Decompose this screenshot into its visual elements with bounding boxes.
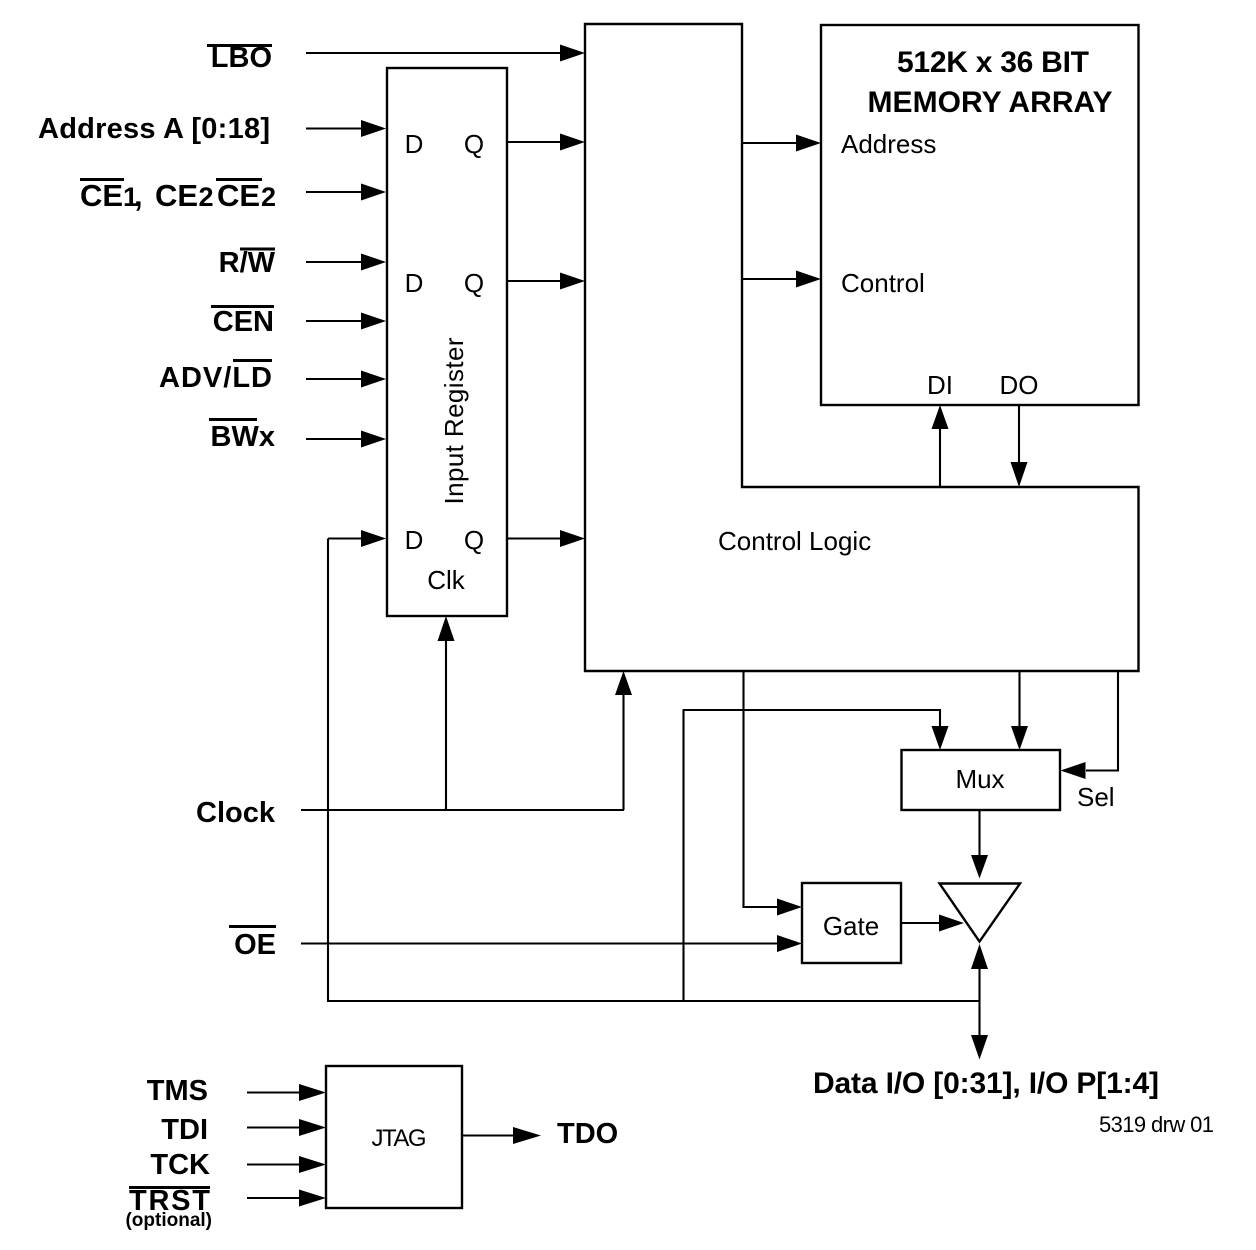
arrowhead TRST [299, 1190, 326, 1207]
wire mux left input [684, 710, 941, 1001]
memory array box [821, 25, 1139, 405]
wire D3 input [328, 537, 363, 539]
arrowhead OE to gate [777, 935, 802, 952]
svg-text:Input Register: Input Register [439, 337, 469, 504]
svg-text:D: D [405, 129, 424, 159]
svg-text:TDI: TDI [161, 1114, 208, 1146]
svg-text:(optional): (optional) [125, 1210, 212, 1231]
svg-text:Sel: Sel [1077, 782, 1115, 812]
svg-text:2: 2 [199, 182, 214, 212]
arrowhead control to gate [777, 899, 802, 916]
arrowhead into buffer bottom [971, 944, 988, 969]
arrowhead mux out [971, 855, 988, 879]
svg-text:Q: Q [464, 525, 484, 555]
svg-text:CEN: CEN [213, 306, 274, 338]
arrowhead Address A [361, 120, 386, 137]
arrowhead pad down [971, 1035, 988, 1060]
arrowhead memory Control [796, 271, 821, 288]
arrowhead D3 [361, 530, 386, 547]
svg-text:CE: CE [155, 178, 198, 213]
arrowhead mux right [1011, 726, 1028, 750]
wire Sel [1086, 671, 1118, 771]
wire Clock to control logic [622, 694, 624, 810]
wire data feedback pad to D3 [328, 539, 980, 1002]
tri-state output buffer [940, 884, 1021, 942]
wire Q2 to control logic [507, 280, 562, 282]
svg-text:Clock: Clock [196, 797, 276, 829]
svg-text:512K x 36 BIT: 512K x 36 BIT [897, 46, 1089, 79]
wire TMS [247, 1091, 301, 1093]
wire R/W input [306, 261, 363, 263]
wire Clock [301, 809, 624, 811]
gate box [802, 883, 901, 963]
wire pad stub [978, 1001, 980, 1036]
wire BWx input [306, 438, 363, 440]
input register U1 box [387, 68, 507, 616]
arrowhead Q3 [560, 530, 585, 547]
JTAG box [326, 1066, 462, 1208]
arrowhead TCK [299, 1156, 326, 1173]
svg-text:Clk: Clk [427, 565, 466, 595]
arrowhead DO [1011, 462, 1028, 487]
wire gate output [901, 922, 941, 924]
svg-text:R/W: R/W [219, 247, 276, 279]
svg-text:CE: CE [217, 178, 260, 213]
svg-text:OE: OE [234, 929, 276, 961]
svg-text:DI: DI [927, 370, 953, 400]
arrowhead ADV/LD [361, 371, 386, 388]
svg-text:TCK: TCK [150, 1149, 210, 1181]
arrowhead CEN [361, 313, 386, 330]
wire TDO [462, 1134, 516, 1136]
wire pad to buffer [978, 969, 980, 1001]
wire DO [1018, 405, 1020, 464]
arrowhead Clock to control [615, 671, 632, 695]
wire DI [939, 428, 941, 487]
wire TRST [247, 1197, 301, 1199]
svg-text:Data I/O [0:31], I/O P[1:4]: Data I/O [0:31], I/O P[1:4] [813, 1067, 1159, 1100]
wire Q3 to control logic [507, 537, 562, 539]
svg-text:CE: CE [80, 178, 123, 213]
wire Q1 to control logic [507, 141, 562, 143]
svg-text:D: D [405, 525, 424, 555]
wire memory Control input [742, 278, 798, 280]
wire mux output [978, 810, 980, 860]
wire mux right input [1018, 671, 1020, 729]
svg-text:BWx: BWx [211, 421, 275, 453]
wire ADV/LD input [306, 378, 363, 380]
wire Clock to Clk [445, 640, 447, 810]
svg-text:5319 drw 01: 5319 drw 01 [1099, 1112, 1214, 1137]
svg-text:ADV/LD: ADV/LD [159, 362, 272, 394]
arrowhead Clk [438, 616, 455, 641]
control logic block [585, 24, 1139, 671]
svg-text:TDO: TDO [557, 1118, 618, 1150]
arrowhead LBO [560, 45, 585, 62]
arrowhead TDO [513, 1127, 541, 1144]
svg-text:,: , [134, 178, 143, 213]
wire OE [301, 942, 779, 944]
wire TCK [247, 1163, 301, 1165]
svg-text:Address A [0:18]: Address A [0:18] [38, 113, 270, 145]
wire memory Address input [742, 142, 798, 144]
arrowhead TDI [299, 1119, 326, 1136]
svg-text:Mux: Mux [955, 764, 1004, 794]
wire CE input [306, 191, 363, 193]
svg-text:Q: Q [464, 268, 484, 298]
arrowhead Sel [1061, 762, 1086, 779]
arrowhead memory Address [796, 135, 821, 152]
svg-text:JTAG: JTAG [372, 1125, 427, 1152]
arrowhead gate out [939, 915, 964, 932]
svg-text:D: D [405, 268, 424, 298]
svg-text:2: 2 [261, 182, 276, 212]
arrowhead Q1 [560, 134, 585, 151]
svg-text:DO: DO [1000, 370, 1039, 400]
svg-text:Gate: Gate [823, 911, 879, 941]
wire CEN input [306, 320, 363, 322]
arrowhead CE [361, 184, 386, 201]
arrowhead BWx [361, 431, 386, 448]
arrowhead R/W [361, 254, 386, 271]
svg-text:Q: Q [464, 129, 484, 159]
svg-text:Control Logic: Control Logic [718, 526, 871, 556]
arrowhead Q2 [560, 273, 585, 290]
arrowhead mux left [932, 726, 949, 750]
svg-text:Address: Address [841, 129, 936, 159]
arrowhead DI [932, 405, 949, 429]
svg-text:MEMORY ARRAY: MEMORY ARRAY [868, 86, 1113, 119]
mux box [902, 750, 1061, 810]
wire TDI [247, 1126, 301, 1128]
svg-text:TMS: TMS [147, 1075, 208, 1107]
svg-text:Control: Control [841, 268, 925, 298]
wire LBO [306, 52, 562, 54]
wire control logic to gate [744, 671, 780, 907]
arrowhead TMS [299, 1084, 326, 1101]
wire Address A input [306, 127, 363, 129]
